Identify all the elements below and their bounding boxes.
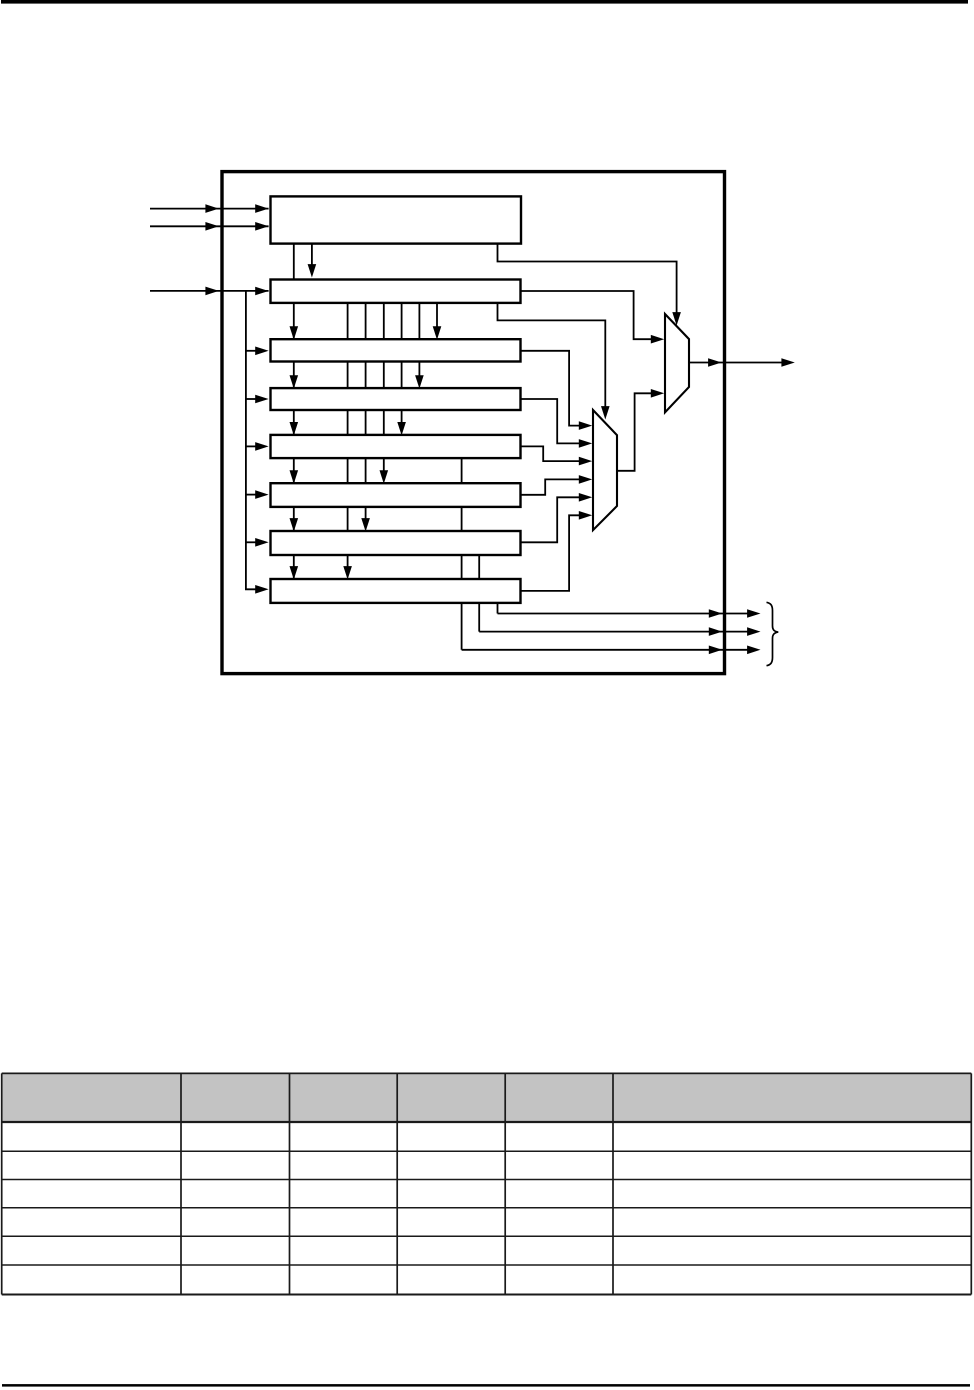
arrowhead: into mux M1 top <box>672 312 681 325</box>
mux M1 (upper) <box>665 314 689 412</box>
arrowheads: trunk branches into R2..R8 <box>255 287 268 296</box>
wire output drop from R7 bottom (x=479.2) <box>478 555 480 632</box>
table header fill <box>2 1074 972 1121</box>
table column lines <box>1 1073 3 1294</box>
wire bus line to R8 (x=347.6) <box>347 303 349 567</box>
wire bottom output 3 (from R5) <box>462 649 748 651</box>
arrowheads: inputs at frame <box>205 204 218 213</box>
wire mux M1 output <box>689 362 782 364</box>
arrowheads: mux M1 left inputs <box>651 335 664 344</box>
wire R2 right to mux M1 input 1 <box>521 291 652 339</box>
diagram outer frame <box>222 172 725 674</box>
bottom rule <box>2 1384 970 1387</box>
register R7 <box>271 531 521 555</box>
wire bus line to R7 (x=365.6) <box>365 303 367 519</box>
wire R8 right to mux M2 input 6 <box>521 515 580 591</box>
arrowheads: bottom output lines <box>709 609 722 618</box>
register R2 <box>271 280 521 303</box>
register R8 <box>271 579 521 603</box>
wire bus line to R6 (x=383.8) <box>383 303 385 471</box>
table top border <box>2 1072 972 1074</box>
table row lines <box>2 1150 972 1152</box>
wire input line 2 into R1 <box>150 225 269 227</box>
wire trunk branch to R6 <box>246 494 257 496</box>
wire R4 right to mux M2 input 2 <box>521 399 580 443</box>
wire R3 right to mux M2 input 1 <box>521 351 580 426</box>
wire R2 bottom to mux M2 top <box>498 303 606 407</box>
table bottom border <box>2 1294 972 1296</box>
wire mux M2 output to mux M1 input 2 <box>617 393 651 471</box>
mux M2 (lower) <box>593 410 617 530</box>
wire input line 3 into R2 <box>150 290 269 292</box>
wire output drop from R8 bottom (x=497.5) <box>497 603 499 614</box>
arrowheads: cascade into R3..R8 (x=293.8) <box>290 326 299 339</box>
register R3 <box>271 339 521 361</box>
arrowheads: mux M2 left inputs <box>579 421 592 430</box>
arrowhead: R1 to R2 (x=311.9) <box>308 264 317 277</box>
wire R6 right to mux M2 input 4 <box>521 479 580 494</box>
wire bottom output 1 (from R8) <box>498 613 749 615</box>
arrowhead: into mux M2 top <box>601 406 610 419</box>
wire trunk vertical (x=245.9) with corner to R8 <box>246 291 256 589</box>
register R1 (top wide box) <box>271 196 522 243</box>
wire R1 bottom to mux M1 top <box>498 244 677 313</box>
arrowheads: bus lines into register tops <box>433 326 442 339</box>
wire bus line to R4 (x=419.4) <box>418 303 420 376</box>
register R4 <box>271 388 521 410</box>
top rule <box>1 0 968 4</box>
wire output drop from R5 bottom (x=461.6) <box>461 458 463 650</box>
arrowheads: mux M1 output line <box>708 358 721 367</box>
wire trunk branch to R7 <box>246 541 257 543</box>
wire bus line to R5 (x=401.6) <box>401 303 403 423</box>
wire trunk branch to R5 <box>246 445 257 447</box>
wire cascade vertical (behind registers, x=293.8) <box>293 244 295 580</box>
register R6 <box>271 483 521 507</box>
brace grouping bottom outputs <box>767 602 779 665</box>
wire R1 to R2 second vertical <box>311 244 313 270</box>
wire R5 right to mux M2 input 3 <box>521 446 580 461</box>
register R5 <box>271 435 521 458</box>
wire trunk branch to R3 <box>246 350 257 352</box>
wire bottom output 2 (from R7) <box>479 631 748 633</box>
wire bus line to R3 (x=437.0) <box>436 303 438 327</box>
wire R7 right to mux M2 input 5 <box>521 497 580 542</box>
wire input line 1 into R1 <box>150 208 269 210</box>
arrowheads: inputs into R1 <box>255 204 268 213</box>
wire trunk branch to R4 <box>246 398 257 400</box>
table header bottom border <box>2 1121 972 1123</box>
